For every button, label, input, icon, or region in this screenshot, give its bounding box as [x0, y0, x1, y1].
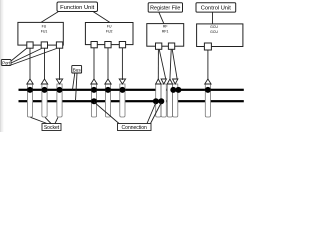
- svg-text:Register File: Register File: [150, 6, 180, 12]
- svg-text:Connection: Connection: [122, 125, 148, 131]
- svg-text:FU2: FU2: [106, 29, 113, 33]
- svg-text:GCU: GCU: [210, 30, 218, 34]
- svg-text:Port: Port: [2, 60, 11, 65]
- svg-text:RF: RF: [163, 25, 168, 29]
- svg-text:FU1: FU1: [41, 29, 48, 33]
- svg-text:Function Unit: Function Unit: [60, 5, 95, 11]
- svg-text:Socket: Socket: [44, 125, 60, 131]
- svg-text:Bus: Bus: [73, 68, 82, 73]
- svg-text:RF1: RF1: [162, 29, 169, 33]
- svg-text:FU: FU: [107, 25, 112, 29]
- svg-text:GCU: GCU: [210, 25, 218, 29]
- svg-text:FU: FU: [42, 25, 47, 29]
- svg-text:Control Unit: Control Unit: [201, 6, 231, 12]
